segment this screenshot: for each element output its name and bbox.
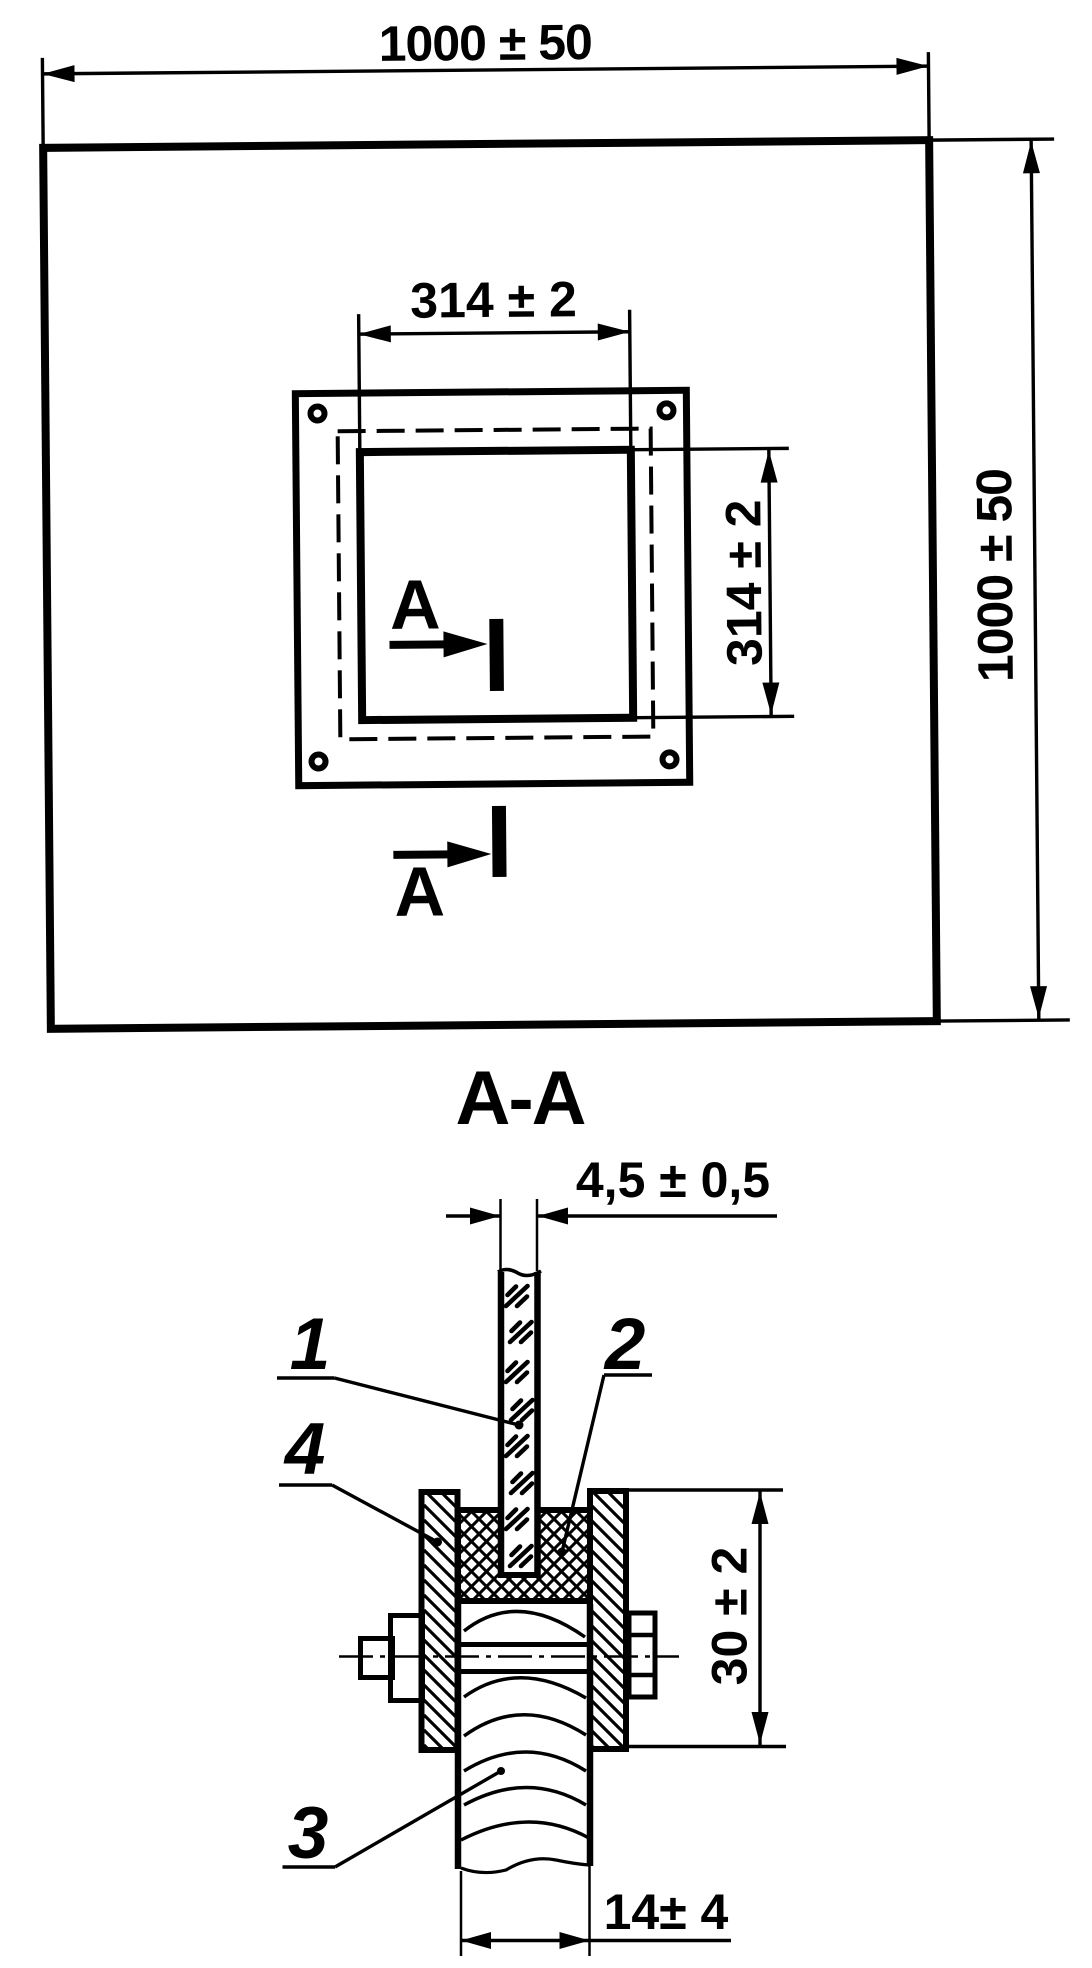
section cut mark A (upper) — [389, 565, 504, 692]
clamp bar left 4 (hatched) — [422, 1460, 460, 1780]
dimension 14 +- 4 (wood width) — [461, 1866, 731, 1956]
svg-text:4,5 ± 0,5: 4,5 ± 0,5 — [576, 1152, 770, 1208]
bolt hole (bottom-left) — [311, 754, 325, 768]
dimension 1000 +- 50 (right height) — [929, 139, 1070, 1021]
svg-text:314 ± 2: 314 ± 2 — [410, 271, 577, 328]
svg-text:14± 4: 14± 4 — [604, 1884, 729, 1940]
dimension 30 +- 2 (clamp height) — [626, 1490, 786, 1747]
leader label 4 (clamp bar) — [279, 1409, 442, 1547]
dimension 4,5 +- 0,5 (glass thickness) — [446, 1152, 777, 1271]
section title A-A — [455, 1056, 584, 1141]
glass hatch ticks — [506, 1286, 533, 1566]
washer (left) — [391, 1616, 423, 1701]
dimension 1000 +- 50 (top width) — [42, 11, 929, 150]
dimension 314 +- 2 (opening width) — [358, 271, 631, 452]
clamp bar right (hatched) — [590, 1459, 627, 1781]
section cut mark A (lower) — [393, 806, 507, 931]
wood grain arcs — [461, 1611, 589, 1840]
svg-text:A-A: A-A — [455, 1056, 584, 1141]
hidden edge square (dashed) — [338, 429, 654, 740]
bolt head (left) — [361, 1639, 393, 1678]
svg-text:314 ± 2: 314 ± 2 — [715, 499, 772, 666]
glass pane 1 (section) — [498, 1270, 541, 1576]
bolt hole (top-right) — [659, 403, 673, 417]
wood frame beam 3 (section edges) — [458, 1604, 590, 1869]
svg-text:A: A — [394, 852, 445, 930]
svg-text:30 ± 2: 30 ± 2 — [702, 1547, 758, 1686]
svg-text:4: 4 — [283, 1409, 326, 1490]
svg-text:2: 2 — [603, 1304, 646, 1385]
svg-text:A: A — [390, 565, 441, 643]
specimen panel outline (plan view) — [43, 140, 937, 1029]
bolt centerline (dash-dot) — [339, 1655, 679, 1658]
bolt hole (top-left) — [310, 406, 324, 420]
svg-text:1: 1 — [290, 1304, 331, 1385]
leader label 1 (glass) — [277, 1304, 524, 1430]
svg-text:3: 3 — [288, 1793, 329, 1874]
sealant 2 (cross-hatched) — [458, 1378, 590, 1735]
leader label 3 (wood beam) — [283, 1767, 506, 1874]
dimension 314 +- 2 (opening height) — [631, 448, 794, 717]
bolt shaft — [456, 1645, 592, 1672]
nut (right) — [629, 1613, 655, 1697]
clamping flange plate outline — [295, 390, 689, 785]
svg-text:1000 ± 50: 1000 ± 50 — [966, 469, 1024, 683]
svg-text:1000 ± 50: 1000 ± 50 — [378, 14, 592, 72]
opening square (exposed glass area) — [360, 450, 633, 720]
break line (wood) — [461, 1859, 589, 1873]
leader label 2 (sealant) — [558, 1304, 653, 1557]
bolt hole (bottom-right) — [662, 752, 676, 766]
